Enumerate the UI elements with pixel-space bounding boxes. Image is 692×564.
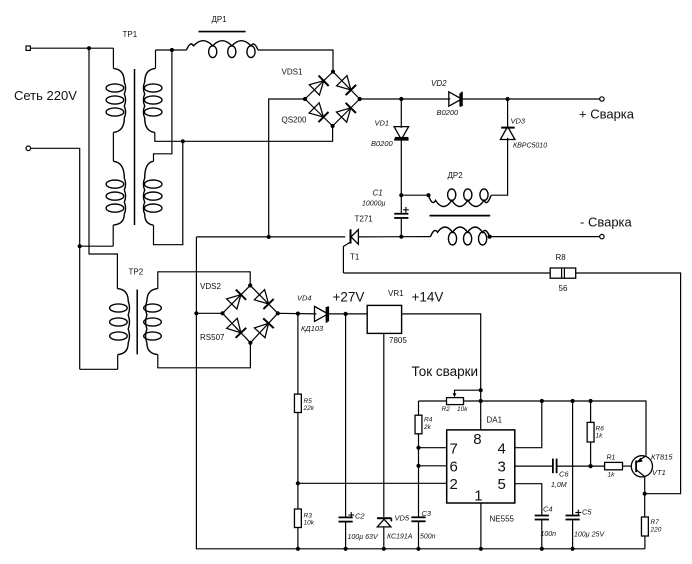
wire: VD2 to + terminal (461, 98, 600, 100)
wire: TP1 primary1 entry stub (112, 48, 114, 68)
voltage regulator VR1 box (367, 305, 401, 333)
node: pin7 junction (416, 446, 420, 450)
svg-text:220: 220 (650, 527, 662, 534)
node: C1 top / DR2 top-left junction (399, 193, 403, 197)
transistor VT1 collector stroke (636, 456, 645, 463)
wire: +14V rail left segment (419, 400, 447, 402)
resistor R1 (1k) (605, 462, 623, 469)
svg-text:Т271: Т271 (355, 215, 374, 224)
svg-text:ТР1: ТР1 (123, 30, 138, 39)
svg-text:ТР2: ТР2 (129, 268, 144, 277)
node: R3 ground junction (296, 547, 300, 551)
node: VDS1 top AC (331, 70, 335, 74)
svg-text:R1: R1 (607, 455, 616, 462)
svg-text:C5: C5 (582, 508, 592, 517)
node: VDS1 bottom AC (331, 124, 335, 128)
wire: TP1 secondary1 bottom to AC bus (155, 126, 333, 141)
wire: pin 3 to C6 (515, 465, 553, 467)
wire: N rail to TP1 primary2 bottom (80, 245, 114, 247)
svg-text:VD2: VD2 (431, 79, 447, 88)
node: C1 bottom junction (399, 235, 403, 239)
svg-text:VDS1: VDS1 (282, 68, 303, 77)
svg-text:1k: 1k (596, 433, 604, 440)
potentiometer R2 (10k) body (447, 398, 464, 405)
svg-text:В0200: В0200 (437, 108, 460, 117)
zener diode VD5 (KS191A) (377, 517, 391, 519)
svg-text:VD1: VD1 (375, 119, 390, 128)
inductor DR1 core bar (199, 31, 246, 33)
transformer TP1 primary winding 2 (113, 161, 125, 225)
svg-text:C2: C2 (355, 512, 365, 521)
wire: emitter to R7 (644, 494, 646, 517)
svg-text:56: 56 (559, 284, 568, 293)
terminal X1 mains input L (square) (26, 46, 30, 50)
svg-text:2: 2 (450, 476, 458, 493)
wire: VR1 ground lead down through VD5 (383, 333, 385, 517)
node: C3 ground junction (416, 547, 420, 551)
transformer TP2 secondary winding (146, 289, 158, 355)
svg-text:КВРС5010: КВРС5010 (513, 143, 547, 150)
node: C2 top junction (+27V) (344, 312, 348, 316)
svg-text:RS507: RS507 (200, 333, 225, 342)
capacitor C4 (535, 515, 549, 517)
inductor DR2 core bar (430, 215, 491, 217)
wire: input N right then down left rail (31, 148, 80, 369)
capacitor C5 plus sign (575, 512, 581, 514)
wire: C2 branch upper (345, 314, 347, 517)
wire: R3 to ground rail (297, 528, 299, 549)
wire: DR2 to - terminal (490, 236, 600, 238)
wire: minus rail left segment (196, 236, 345, 238)
wire: T1 cathode to C1 bottom (358, 236, 401, 238)
svg-text:ДР2: ДР2 (448, 171, 464, 180)
svg-text:22k: 22k (303, 405, 315, 412)
svg-text:10k: 10k (304, 520, 315, 527)
capacitor C2 (339, 516, 353, 518)
transformer TP1 primary winding 1 (113, 68, 125, 132)
node: VDS2 bottom AC (248, 341, 252, 345)
node: VDS1 right DC+ (358, 97, 362, 101)
svg-text:КС191А: КС191А (387, 534, 413, 541)
svg-text:VD5: VD5 (395, 514, 410, 523)
wire: TP2 secondary top to VDS2 top (158, 272, 250, 289)
svg-text:R6: R6 (596, 426, 605, 433)
node: rail junction R6 branch (589, 399, 593, 403)
transformer TP2 primary winding (117, 289, 129, 355)
wire: VT1 emitter lead (644, 477, 646, 494)
wire: C5 branch upper (572, 401, 574, 516)
svg-text:C3: C3 (422, 509, 432, 518)
wire: rail riser from R4 (418, 401, 420, 415)
wire: vertical x=89 down to TP2 primary top (89, 48, 117, 288)
node: C2 ground junction (344, 547, 348, 551)
inductor DR1 winding (187, 41, 259, 50)
svg-text:КТ815: КТ815 (651, 453, 673, 462)
capacitor C1 10000u plus sign (403, 209, 409, 211)
svg-text:7805: 7805 (389, 336, 407, 345)
svg-text:1,0M: 1,0M (551, 482, 567, 489)
node: rail junction pin4 riser (540, 399, 544, 403)
node: minus rail / VDS1 junction (267, 235, 271, 239)
node: rail junction pin8 riser (479, 399, 483, 403)
bridge rectifier VDS2: arm diode (250.4, 342.8)->(277.8, 313.3) (250, 313, 277, 343)
node: pin1 ground junction (479, 547, 483, 551)
svg-text:VD4: VD4 (297, 294, 312, 303)
node: VD1 top junction (399, 97, 403, 101)
wire: pin 6 wire (419, 465, 447, 467)
transistor VT1 arrow (636, 458, 643, 463)
thyristor T1 triangle (351, 230, 358, 245)
svg-text:6: 6 (450, 458, 458, 475)
wire: R1 to VT1 base (623, 465, 632, 467)
terminal + Сварка (circle) (600, 97, 604, 101)
svg-text:VT1: VT1 (652, 468, 666, 477)
node: C4 ground junction (540, 547, 544, 551)
IC DA1 NE555 body (447, 430, 515, 503)
transformer TP1 secondary winding 2 (143, 161, 153, 225)
wire: pin 5 wire to C4 (515, 484, 542, 516)
wire: R4 to C3 (418, 434, 420, 518)
resistor R4 (2k) (415, 415, 422, 434)
svg-text:R8: R8 (556, 253, 567, 262)
resistor R3 (10k) (294, 509, 301, 528)
svg-text:В0200: В0200 (371, 139, 394, 148)
node: VD3 top junction (506, 97, 510, 101)
svg-text:500n: 500n (420, 534, 436, 541)
svg-text:ДР1: ДР1 (212, 15, 228, 24)
svg-text:10000µ: 10000µ (362, 201, 386, 208)
wire: pin 4 wire (515, 401, 542, 448)
node: junction N rail / TP1 primary bottom (78, 244, 82, 248)
node: pin2 junction (296, 481, 300, 485)
wire: TP2 primary bottom stub (117, 355, 119, 370)
wire: R7 to ground rail (644, 536, 646, 549)
bridge rectifier VDS1: arm diode (332.6, 126)->(359.7, 99) (333, 99, 360, 126)
wire: VDS1 left node to minus rail (269, 99, 305, 237)
svg-text:Ток сварки: Ток сварки (412, 364, 479, 379)
svg-text:QS200: QS200 (282, 116, 307, 125)
svg-text:100µ 63V: 100µ 63V (348, 534, 379, 541)
node: TP1 secondary bottoms junction (181, 139, 185, 143)
wire: pin 1 to ground rail (480, 503, 482, 549)
diode VD3 (KBPC5010) pointing up (501, 127, 515, 129)
wire: TP1 primary2 exit stub (112, 225, 114, 246)
wire: VDS2 right node to VD4 (278, 312, 317, 315)
node: emitter junction (643, 492, 647, 496)
wire: VD3 branch upper (507, 99, 509, 127)
wire: pin 7 wire (419, 447, 447, 449)
diode VD4 (KD103) (315, 306, 329, 321)
bridge rectifier VDS2: arm diode (222.5, 313.3)->(250.2, 285.4) (223, 285, 251, 313)
node: DR2 top winding left end (426, 193, 430, 197)
resistor R7 (220) (641, 517, 648, 536)
bridge rectifier VDS2: arm diode (250.2, 285.4)->(277.8, 313.3) (250, 285, 278, 313)
wire: R5 branch upper (297, 314, 299, 395)
svg-text:R4: R4 (424, 417, 433, 424)
transistor VT1 emitter stroke (636, 470, 645, 477)
inductor DR2 bottom winding (431, 227, 490, 237)
svg-text:R7: R7 (651, 519, 660, 526)
wire: minus-rail corner down the left side to ground rail (196, 237, 645, 549)
svg-text:КД103: КД103 (301, 324, 324, 333)
inductor DR2 top winding (429, 196, 492, 207)
potentiometer R2 wiper arrow (455, 390, 481, 393)
terminal X2 mains input N (circle) (26, 146, 31, 151)
wire: TP1 secondary1 top stub (155, 50, 157, 68)
node: junction input L / TP2 feed (87, 46, 91, 50)
svg-text:R5: R5 (304, 398, 313, 405)
wire: VDS1 right node to VD2 (360, 98, 451, 100)
svg-text:R3: R3 (304, 513, 313, 520)
svg-text:5: 5 (497, 476, 505, 493)
bridge rectifier VDS1: arm diode (305, 99)->(333, 71.7) (305, 72, 333, 99)
svg-text:1k: 1k (608, 472, 616, 479)
transistor VT1 KT815 circle (631, 456, 652, 477)
capacitor C1 (400, 195, 402, 214)
node: VDS2 top AC (248, 283, 252, 287)
wire: VD1 to C1 node (400, 139, 402, 196)
transformer TP1 core (134, 69, 136, 225)
wire: pin 2 wire to IC (298, 482, 447, 484)
svg-text:VR1: VR1 (388, 289, 404, 298)
wire: secondary tops link (154, 50, 172, 161)
svg-text:+14V: +14V (412, 290, 444, 305)
bridge rectifier VDS2: arm diode (222.5, 313.3)->(250.4, 342.8) (223, 313, 251, 343)
wire: input L to TP1 primary top (30, 47, 113, 49)
svg-text:4: 4 (497, 441, 505, 458)
node: TP1 secondary tops junction (170, 48, 174, 52)
terminal - Сварка (circle) (600, 234, 604, 238)
node: rail junction C5 branch (571, 399, 575, 403)
svg-text:DA1: DA1 (487, 416, 503, 425)
wire: +14V rail right segment (464, 401, 647, 456)
svg-text:C6: C6 (559, 470, 569, 479)
node: VDS2 right DC+ (276, 311, 280, 315)
svg-text:VDS2: VDS2 (200, 282, 221, 291)
svg-text:NE555: NE555 (490, 515, 515, 524)
svg-text:2k: 2k (423, 424, 432, 431)
bridge rectifier VDS1: arm diode (305, 99)->(332.6, 126) (305, 99, 333, 126)
svg-text:8: 8 (473, 431, 481, 448)
node: DR2 bottom winding right end (488, 235, 492, 239)
node: C5 ground junction (571, 547, 575, 551)
wire: T1 gate lead (343, 242, 350, 273)
wire: TP2 bottom wire (80, 368, 118, 370)
capacitor C3 (411, 516, 425, 518)
node: VD5 ground junction (382, 547, 386, 551)
svg-text:C4: C4 (543, 505, 553, 514)
wire: TP2 secondary bottom to VDS2 bottom (158, 343, 251, 368)
node: R5 top junction (296, 312, 300, 316)
wire: TP1 secondary top to DR1 (156, 49, 187, 51)
capacitor C2 plus sign (348, 514, 354, 516)
wire: C1 bottom to DR2 bottom winding (401, 236, 430, 238)
wire: gate rail to R8 (343, 272, 550, 274)
wire: VDS2 left node to left rail (196, 312, 222, 314)
svg-text:Сеть 220V: Сеть 220V (14, 88, 77, 103)
wire: TP1 primary link (112, 132, 114, 161)
svg-text:- Сварка: - Сварка (580, 215, 633, 230)
node: R6 bottom junction (589, 464, 593, 468)
wire: R8 to VT1 emitter (576, 273, 681, 494)
diode VD1 (B0200) pointing down (394, 127, 409, 140)
node: pin6 junction (416, 464, 420, 468)
svg-text:R2: R2 (442, 406, 451, 413)
svg-text:VD3: VD3 (511, 117, 526, 126)
svg-text:+ Сварка: + Сварка (579, 107, 635, 122)
transistor VT1 base bar (635, 461, 637, 473)
svg-text:100n: 100n (541, 531, 557, 538)
svg-text:Т1: Т1 (350, 253, 360, 262)
svg-text:3: 3 (497, 458, 505, 475)
resistor R5 (22k) (294, 394, 301, 412)
wire: VD4 to VR1 (327, 313, 367, 315)
node: left rail / VDS2 junction (194, 311, 198, 315)
wire: C6 to R1 (557, 465, 605, 467)
svg-text:+27V: +27V (333, 290, 365, 305)
wire: VR1 output to pin8 drop (402, 314, 481, 430)
svg-text:C1: C1 (373, 189, 383, 198)
svg-text:1: 1 (474, 488, 482, 505)
resistor R6 (1k) (587, 422, 594, 442)
capacitor C6 (1.0M) (552, 459, 554, 474)
node: wiper junction (479, 388, 483, 392)
node: VDS1 left DC- (303, 97, 307, 101)
thyristor T1 (T271) cathode bar (350, 229, 352, 243)
transformer TP1 secondary winding 1 (143, 68, 155, 132)
wire: C1 node to DR2 winding (401, 194, 428, 196)
capacitor C5 (566, 515, 580, 517)
wire: TP1 secondary2 bottom link (154, 141, 183, 244)
node: VDS2 left DC- (220, 311, 224, 315)
diode VD2 (B0200) (449, 92, 462, 106)
wire: VD3 to DR2 top-right (491, 138, 508, 195)
bridge rectifier VDS1: arm diode (333, 71.7)->(359.7, 99) (333, 72, 360, 99)
wire: TP2 primary top stub (116, 288, 118, 290)
wire: VD1 branch upper (400, 99, 402, 128)
svg-text:7: 7 (450, 441, 458, 458)
wire: DR1 to VDS1 top (258, 50, 333, 72)
transformer TP2 core (136, 290, 138, 355)
resistor R8 (56) (550, 268, 576, 278)
svg-text:100µ 25V: 100µ 25V (574, 532, 605, 539)
svg-text:10k: 10k (457, 406, 468, 413)
wire: R5 to R3 (297, 413, 299, 510)
